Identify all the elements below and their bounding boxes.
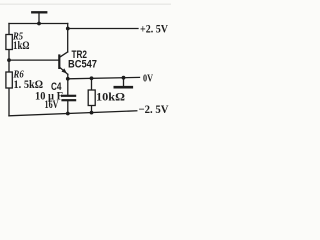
junction dots (7, 22, 125, 116)
wire: top-right rail to +2.5V (68, 28, 138, 30)
faint page artifact line (0, 4, 171, 5)
resistor 10k (88, 90, 95, 106)
wire: base wire (9, 59, 59, 61)
terminal: 0V stub (123, 78, 125, 87)
svg-text:−2. 5V: −2. 5V (139, 104, 170, 116)
node: base divider junction (7, 58, 11, 62)
resistor R5 1k (6, 35, 12, 50)
node: 10k top junction (90, 76, 94, 80)
wire: left bus R5 top lead (8, 24, 10, 35)
node: 0V terminal junction (122, 76, 126, 80)
svg-text:1. 5kΩ: 1. 5kΩ (14, 79, 44, 91)
wire: R5 bottom lead to base node (8, 50, 10, 61)
node: C4 bottom junction (66, 112, 70, 116)
node: 10k bottom junction (90, 111, 94, 115)
terminal: 0V bar (115, 86, 132, 89)
base bar (58, 56, 60, 68)
wire: jog down to right rail / collector line (67, 24, 69, 52)
wire: C4 top lead (67, 79, 69, 95)
wire: 10k top lead (91, 78, 93, 90)
emitter vertical to node (67, 74, 69, 79)
svg-text:0V: 0V (143, 73, 153, 85)
emitter arrowhead (62, 68, 68, 73)
labels (12, 24, 169, 117)
node: top terminal junction (37, 22, 41, 26)
svg-text:10kΩ: 10kΩ (96, 92, 125, 104)
emitter lead diagonal (60, 68, 68, 75)
node: emitter/output junction (66, 77, 70, 81)
collector lead diagonal (60, 52, 68, 57)
svg-text:+2. 5V: +2. 5V (140, 24, 169, 36)
wire: R6 bottom lead to bottom rail (8, 88, 10, 116)
svg-text:BC547: BC547 (68, 59, 97, 71)
capacitor C4 plates (61, 96, 76, 100)
wire: 10k bottom lead (91, 106, 93, 113)
wire: top-left +rail (9, 23, 68, 25)
wire: emitter/output 0V rail (68, 77, 140, 78)
transistor TR2 BC547 (59, 52, 68, 79)
wire: bottom -2.5V rail (9, 111, 137, 116)
resistor R6 1.5k (6, 72, 12, 88)
terminal: top supply stub (38, 13, 40, 24)
terminal: top supply bar (32, 11, 46, 13)
wire: base node to R6 top lead (8, 60, 10, 72)
svg-text:16V: 16V (45, 99, 59, 111)
svg-text:1kΩ: 1kΩ (13, 40, 30, 52)
node: collector/rail junction (66, 27, 70, 31)
wire: C4 bottom lead (67, 101, 69, 114)
